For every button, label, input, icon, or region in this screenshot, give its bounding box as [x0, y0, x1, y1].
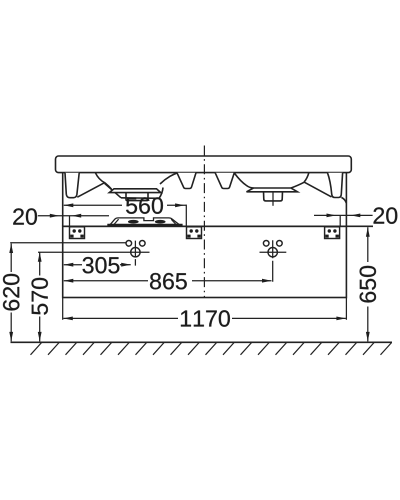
left bowl outer shell right slope — [105, 183, 121, 197]
label 20 right — [374, 207, 398, 223]
left leg — [65, 173, 79, 198]
label 1170 — [181, 310, 230, 326]
washbasin countertop slab — [56, 156, 352, 173]
right bowl inner wall left — [234, 173, 253, 188]
rail slot right — [155, 220, 166, 224]
extension line bracket right — [339, 216, 341, 227]
right bowl drain box — [264, 192, 283, 201]
dimension 1170 — [63, 317, 346, 321]
ground hatching — [31, 343, 392, 355]
ground line — [11, 341, 393, 343]
right bowl tray — [247, 188, 298, 192]
dimension 620 — [9, 244, 13, 342]
fixing hole left — [126, 241, 145, 266]
left bowl tray — [109, 189, 161, 193]
leader line upper to 620 — [10, 242, 126, 244]
label 865 — [150, 273, 187, 289]
right leg skirt connector — [341, 197, 346, 203]
left bowl rim right — [160, 173, 177, 184]
dimension 560 — [64, 203, 187, 207]
label 560 — [126, 197, 163, 213]
rail base — [107, 224, 182, 227]
right bowl drain axis — [272, 192, 274, 206]
fixing hole right — [260, 240, 287, 282]
label 620 — [3, 274, 19, 311]
wall line — [63, 225, 373, 227]
right-middle leg — [215, 173, 234, 189]
left skirt edge — [62, 173, 64, 227]
right bowl rim right — [291, 173, 309, 188]
left-middle leg — [177, 173, 196, 189]
left wall bracket — [70, 227, 85, 239]
rail inner slope right — [171, 219, 177, 226]
extension line 1170 left — [62, 298, 64, 320]
dimension 650 — [366, 227, 370, 341]
left bowl drain box — [126, 193, 148, 201]
center line — [203, 146, 205, 298]
label 305 — [83, 257, 120, 273]
right bowl outer slant — [304, 182, 331, 197]
rail slot left — [128, 220, 139, 224]
right leg — [328, 173, 343, 198]
right skirt edge — [345, 173, 347, 227]
dimension 20 right — [314, 214, 373, 218]
left bowl under edge — [121, 188, 163, 199]
extension line bracket left — [69, 216, 71, 227]
dimension 865 — [64, 279, 272, 283]
leader line lower to 570 — [38, 251, 150, 253]
middle wall bracket — [187, 227, 202, 239]
dimension 570 — [38, 252, 42, 341]
mounting rail — [109, 218, 182, 226]
dimension 305 — [64, 263, 131, 267]
label 650 — [360, 266, 376, 303]
extension line 560 right — [185, 205, 187, 227]
left bowl outer shell left slope — [77, 182, 105, 197]
extension line 1170 right — [345, 298, 347, 320]
label 20 left — [13, 208, 37, 224]
rail inner slope left — [113, 219, 119, 226]
right wall bracket — [325, 227, 340, 239]
cabinet — [63, 226, 347, 297]
label 570 — [31, 278, 47, 315]
left bowl inner wall — [95, 173, 111, 189]
dimension 20 left — [38, 214, 109, 218]
